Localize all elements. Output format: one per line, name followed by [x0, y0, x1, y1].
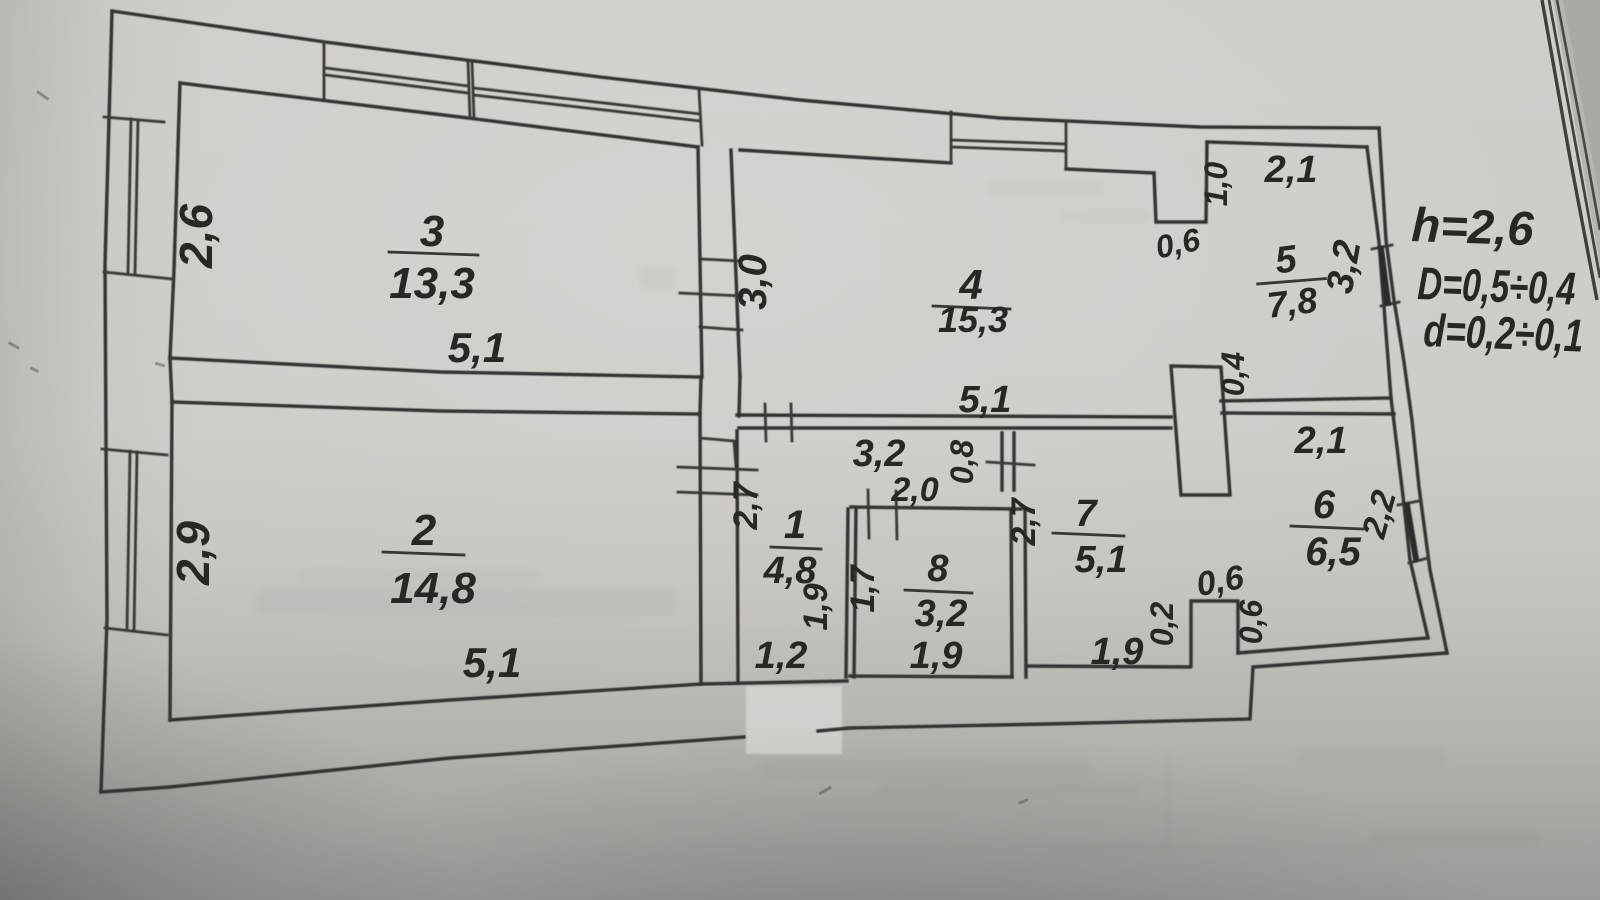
room 3 left wall: [170, 83, 180, 358]
room 4 top wall inner line left part: [740, 150, 951, 163]
room 8 right wall double: [1011, 509, 1026, 677]
room 6 inner right wall: [1391, 398, 1428, 638]
svg-text:5,1: 5,1: [1075, 539, 1128, 581]
room 3 bottom wall: [170, 358, 701, 377]
room 4 top wall inner line right part: [1066, 169, 1154, 173]
room 8 left wall double: [846, 509, 856, 677]
room 4 window E sash lines: [952, 140, 1065, 151]
svg-text:h=2,6: h=2,6: [1411, 199, 1535, 256]
room 4 window E right tick: [1065, 121, 1068, 169]
left window D sash lines: [127, 451, 137, 631]
svg-text:1,0: 1,0: [1198, 162, 1234, 207]
divider rooms 3/4 right line: [731, 150, 740, 377]
balcony window A sash lines: [326, 68, 468, 93]
outer wall: right edge: [1379, 128, 1447, 653]
svg-text:0,6: 0,6: [1194, 558, 1248, 604]
svg-text:2,0: 2,0: [890, 471, 938, 509]
balcony window B left tick: [472, 62, 474, 118]
svg-text:7,8: 7,8: [1265, 279, 1320, 326]
bottom wall rooms 1/2 area: [701, 681, 847, 684]
room 6 right window G thick sash: [1407, 505, 1416, 559]
divider rooms 2/1 jog: [700, 438, 736, 467]
room 4 bottom wall lower line: [739, 426, 1171, 429]
svg-text:3,0: 3,0: [731, 254, 775, 310]
svg-text:15,3: 15,3: [938, 299, 1008, 340]
svg-text:2,7: 2,7: [727, 480, 765, 530]
svg-text:2,2: 2,2: [1355, 486, 1404, 543]
left wall connector between rooms 3/2: [170, 358, 172, 402]
door ticks rooms 3/4 divider: [680, 259, 742, 330]
svg-text:1,7: 1,7: [844, 563, 882, 612]
svg-text:2: 2: [411, 506, 437, 555]
balcony window B sash lines: [474, 88, 700, 121]
divider rooms 2/1 right line: [737, 431, 738, 682]
svg-text:0,2: 0,2: [1144, 602, 1180, 647]
balcony window A left tick: [323, 42, 326, 98]
divider connector right: [739, 377, 740, 416]
svg-text:0,6: 0,6: [1233, 600, 1269, 645]
svg-text:5: 5: [1273, 238, 1300, 282]
room 4 window E left tick: [950, 112, 953, 163]
short wall corridor/room 7: [1002, 433, 1014, 490]
outer wall: bottom edge right part with step: [818, 653, 1447, 731]
room 5 top wall inner line: [1207, 142, 1367, 147]
svg-text:14,8: 14,8: [390, 564, 476, 613]
room 4 bottom wall upper line: [737, 415, 1171, 417]
room 5 bottom wall upper line: [1221, 398, 1391, 401]
outer wall: left edge: [101, 11, 112, 792]
svg-text:2,7: 2,7: [1005, 496, 1043, 546]
left window D bottom tick: [105, 628, 167, 635]
svg-text:1,9: 1,9: [1091, 631, 1144, 673]
svg-text:6: 6: [1313, 483, 1336, 527]
left window C top tick: [104, 117, 164, 122]
paper edge line 3: [1557, 0, 1600, 230]
room 5 bottom wall lower line: [1222, 413, 1394, 414]
protrusion between rooms 7/6: [1191, 601, 1238, 666]
room 5 right window F ticks: [1372, 245, 1399, 306]
notch recess at room 5 left: [1154, 142, 1207, 222]
room 6 right window G ticks: [1398, 501, 1428, 563]
room 6 bottom inner wall: [1238, 638, 1428, 653]
svg-text:3,2: 3,2: [1319, 237, 1370, 296]
svg-text:2,9: 2,9: [167, 521, 219, 586]
svg-text:8: 8: [927, 548, 949, 590]
left window C sash lines: [128, 119, 138, 273]
svg-text:7: 7: [1075, 493, 1098, 535]
svg-text:5,1: 5,1: [463, 639, 521, 686]
small specks: [8, 90, 1029, 804]
svg-text:13,3: 13,3: [389, 259, 475, 308]
room 8 top wall: [851, 507, 1021, 509]
left window D top tick: [102, 449, 167, 455]
svg-text:0,4: 0,4: [1215, 352, 1251, 397]
white correction patch below hallway: [746, 686, 842, 754]
svg-text:6,5: 6,5: [1305, 530, 1361, 574]
ghost bleed-through marks: [255, 180, 1590, 857]
paper edge line 2: [1549, 0, 1600, 278]
outer wall: bottom edge left part: [101, 737, 744, 792]
svg-text:1: 1: [784, 503, 806, 547]
room 5 number label: [1253, 235, 1331, 327]
door ticks room 4 bottom: [765, 404, 792, 441]
svg-text:1,9: 1,9: [910, 635, 963, 677]
divider connector left: [700, 377, 701, 414]
left window C bottom tick: [104, 272, 172, 279]
vent shaft rectangle: [1171, 366, 1230, 495]
paper edge line 1: [1542, 0, 1597, 300]
balcony window B right tick: [699, 90, 702, 145]
bottom wall room 8: [850, 676, 1012, 677]
svg-text:0,6: 0,6: [1152, 221, 1203, 266]
svg-text:0,8: 0,8: [944, 440, 980, 485]
room 2 top wall: [172, 402, 698, 414]
svg-text:5,1: 5,1: [959, 379, 1012, 421]
balcony window A right tick: [468, 62, 470, 117]
bottom wall room 7: [1027, 666, 1190, 667]
outer wall: top edge: [112, 11, 1379, 128]
svg-text:d=0,2÷0,1: d=0,2÷0,1: [1423, 304, 1585, 362]
svg-text:3: 3: [420, 207, 444, 256]
svg-text:1,9: 1,9: [797, 583, 835, 630]
door ticks rooms 2/1: [678, 467, 757, 495]
svg-text:1,2: 1,2: [755, 635, 808, 677]
room 5 right window F thick sash: [1381, 249, 1388, 303]
room 3 top wall (inner line of top band): [180, 83, 698, 147]
svg-text:5,1: 5,1: [448, 324, 506, 371]
room 2 bottom wall: [170, 684, 701, 720]
door tick corridor/room 7: [987, 462, 1034, 465]
room 8 door ticks: [868, 490, 897, 539]
svg-text:2,1: 2,1: [1264, 149, 1318, 191]
room 5 inner right wall: [1367, 147, 1391, 398]
paper edge shading top-right: [1553, 0, 1600, 265]
svg-text:3,2: 3,2: [853, 433, 906, 475]
svg-text:3,2: 3,2: [915, 593, 968, 635]
divider rooms 3/4 left line: [698, 147, 702, 377]
svg-text:2,6: 2,6: [170, 204, 222, 269]
room 2 left wall: [170, 402, 172, 720]
divider rooms 2/1 left line: [700, 414, 701, 684]
svg-text:2,1: 2,1: [1294, 420, 1348, 462]
